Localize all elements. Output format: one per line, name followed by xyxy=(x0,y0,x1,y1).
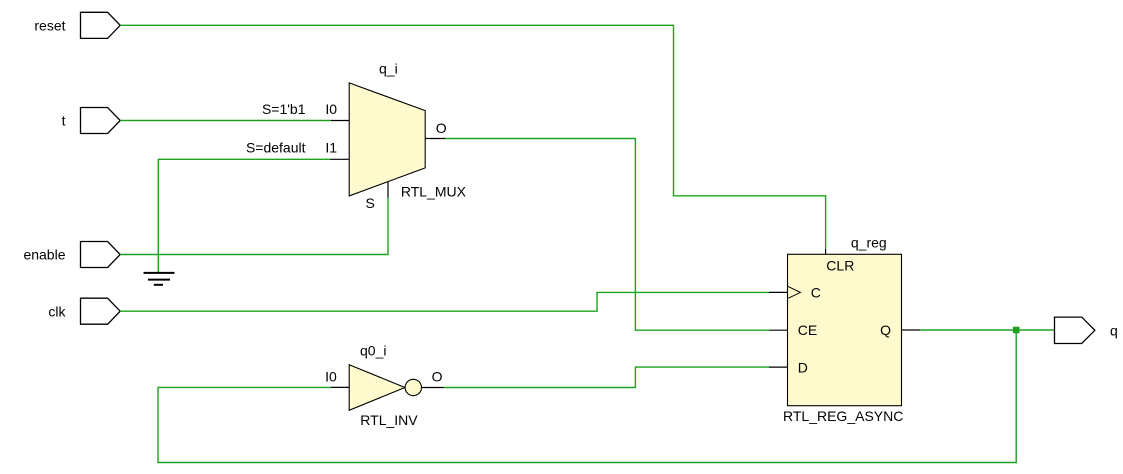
inverter q0_i xyxy=(349,365,421,411)
mux q_i xyxy=(349,83,425,196)
input port enable xyxy=(23,242,120,268)
wire feedback q net xyxy=(158,330,1016,463)
pin stub I0 inverter xyxy=(331,386,350,388)
svg-text:C: C xyxy=(811,284,821,300)
clock triangle C xyxy=(788,286,801,298)
output port q xyxy=(1055,317,1118,343)
pin stub D xyxy=(769,366,788,368)
svg-text:CE: CE xyxy=(798,322,817,338)
svg-text:clk: clk xyxy=(48,303,66,319)
pin stub O inverter xyxy=(422,387,444,389)
svg-text:D: D xyxy=(798,359,808,375)
wire t net xyxy=(120,120,331,122)
wire reset net xyxy=(120,25,825,249)
svg-text:I1: I1 xyxy=(325,139,337,155)
pin stub O mux xyxy=(425,138,445,140)
svg-text:O: O xyxy=(436,120,447,136)
svg-text:CLR: CLR xyxy=(826,257,854,273)
wire clk net xyxy=(120,292,769,311)
pin stub I1 mux xyxy=(331,158,350,160)
wire mux O net to CE xyxy=(445,139,769,331)
input port clk xyxy=(48,298,120,324)
wire I1 net to ground xyxy=(158,159,330,272)
svg-text:I0: I0 xyxy=(325,369,337,385)
svg-text:I0: I0 xyxy=(325,101,337,117)
input port reset xyxy=(34,12,120,38)
svg-text:S=1'b1: S=1'b1 xyxy=(262,101,306,117)
pin stub CE xyxy=(769,329,787,331)
register q_reg xyxy=(788,254,902,405)
pin stub C xyxy=(769,291,787,293)
pin stub CLR xyxy=(825,249,827,255)
svg-text:reset: reset xyxy=(34,17,65,33)
svg-text:O: O xyxy=(432,368,443,384)
junction q net xyxy=(1013,327,1020,334)
pin stub S mux xyxy=(387,181,389,197)
svg-text:RTL_INV: RTL_INV xyxy=(360,412,418,428)
pin stub I0 mux xyxy=(331,120,350,122)
wire enable net to S xyxy=(120,198,388,255)
ground xyxy=(144,273,175,285)
svg-text:q: q xyxy=(1110,322,1118,338)
svg-text:t: t xyxy=(62,113,66,129)
input port t xyxy=(62,108,121,134)
svg-text:S: S xyxy=(366,195,375,211)
svg-text:S=default: S=default xyxy=(246,139,306,155)
svg-text:enable: enable xyxy=(23,247,65,263)
wire inverter O net to D xyxy=(444,367,770,387)
svg-text:q_reg: q_reg xyxy=(851,235,887,251)
svg-text:RTL_REG_ASYNC: RTL_REG_ASYNC xyxy=(783,408,903,424)
svg-text:q0_i: q0_i xyxy=(360,342,386,358)
svg-text:q_i: q_i xyxy=(379,61,398,77)
svg-text:Q: Q xyxy=(880,322,891,338)
svg-text:RTL_MUX: RTL_MUX xyxy=(401,183,467,199)
pin stub Q xyxy=(902,329,921,331)
wire Q net xyxy=(920,329,1054,331)
